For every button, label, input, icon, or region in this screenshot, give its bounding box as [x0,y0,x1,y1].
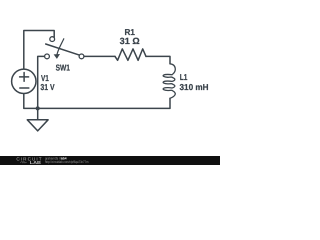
svg-text:SW1: SW1 [56,62,71,72]
resistor R1 [115,49,146,60]
ground symbol stem [37,108,39,119]
junction node dot at ground rail [36,106,40,110]
voltage source V1 [12,69,36,93]
svg-text:31 V: 31 V [40,82,54,92]
switch SW1 common contact [79,54,84,59]
footer watermark bar [0,156,220,165]
switch SW1 blade [46,44,80,55]
switch SW1 top throw contact [50,37,55,42]
svg-text:L1: L1 [180,72,188,82]
switch SW1 actuation arrow [57,39,64,55]
inductor L1 [163,64,175,99]
svg-text:31 Ω: 31 Ω [120,36,140,46]
switch SW1 left throw contact [45,54,50,59]
wire from resistor R1 to inductor L1 [146,56,170,63]
wire from V1 top to switch top throw [24,31,54,70]
svg-text:http://circuitlab.com/c/pf6qa7: http://circuitlab.com/c/pf6qa73c77m [45,160,89,164]
wire from inductor bottom along ground rail to V1 bottom [24,94,170,109]
wire from switch left throw down to ground rail [38,56,45,108]
switch SW1 arrow head [54,54,60,59]
svg-text:LAB: LAB [30,160,41,165]
wire from switch common to resistor R1 [84,55,115,57]
ground symbol triangle [27,120,48,131]
footer CircuitLab logo: resistor glyph [20,161,27,163]
svg-text:310 mH: 310 mH [180,82,209,92]
